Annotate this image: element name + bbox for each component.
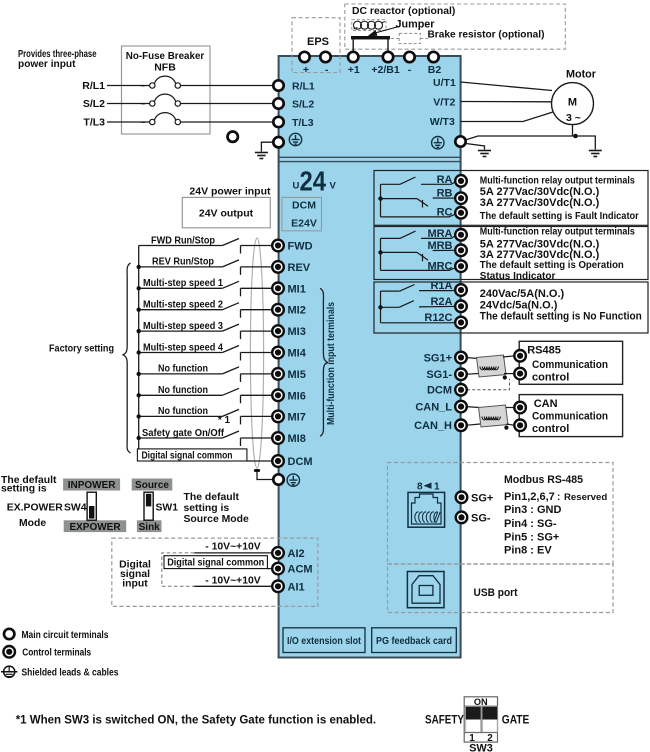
CAN isolation transformer bbox=[479, 405, 509, 427]
svg-text:RS485: RS485 bbox=[527, 345, 561, 357]
svg-text:Source Mode: Source Mode bbox=[184, 514, 249, 525]
DC reactor outer dashed box bbox=[345, 4, 566, 49]
svg-text:AI2: AI2 bbox=[288, 548, 305, 560]
terminal minus2 (top) bbox=[404, 52, 414, 62]
svg-text:CAN: CAN bbox=[534, 398, 558, 410]
CAN box bbox=[519, 395, 622, 437]
switch blade MI5 bbox=[222, 367, 239, 374]
svg-text:T/L3: T/L3 bbox=[292, 117, 314, 129]
digital signal common label box bbox=[137, 449, 247, 461]
svg-text:EX.POWER: EX.POWER bbox=[7, 503, 63, 514]
svg-text:Pin1,2,6,7: Pin1,2,6,7 bbox=[504, 491, 555, 503]
terminal MI3 bbox=[272, 325, 284, 337]
wire U/T1 to motor bbox=[461, 82, 553, 91]
junction dot MI1 bbox=[137, 286, 141, 290]
svg-text:Factory setting: Factory setting bbox=[49, 343, 114, 355]
svg-text:24: 24 bbox=[300, 166, 327, 197]
terminal AI2 bbox=[272, 547, 284, 559]
USB dashed box bbox=[388, 564, 614, 613]
relay output box 2 bbox=[374, 227, 648, 280]
legend main circuit symbol bbox=[4, 629, 14, 639]
svg-text:24Vdc/5a(N.O.): 24Vdc/5a(N.O.) bbox=[480, 299, 558, 311]
svg-text:SW3: SW3 bbox=[469, 743, 493, 752]
svg-text:Multi-function input terminals: Multi-function input terminals bbox=[326, 302, 337, 425]
svg-text:U: U bbox=[293, 181, 300, 192]
brake resistor dashed body bbox=[399, 33, 420, 43]
terminal REV bbox=[272, 261, 284, 273]
switch post MI2 bbox=[240, 310, 242, 318]
terminal T/L3 bbox=[273, 117, 283, 127]
terminal R1A bbox=[455, 284, 467, 296]
svg-text:Multi-step speed 1: Multi-step speed 1 bbox=[143, 277, 223, 289]
svg-text:No-Fuse Breaker: No-Fuse Breaker bbox=[126, 51, 205, 62]
svg-text:S/L2: S/L2 bbox=[83, 98, 105, 110]
terminal MI8 bbox=[272, 432, 284, 444]
terminal SG+ bbox=[456, 492, 468, 504]
switch post MI8 bbox=[240, 438, 242, 446]
wire ground-terminal to earth (input side) bbox=[261, 142, 273, 151]
junction dot MI5 bbox=[137, 372, 141, 376]
modbus dashed box bbox=[388, 463, 614, 565]
motor M circle bbox=[552, 83, 594, 125]
wire DCM common bbox=[247, 460, 273, 462]
wire PE to left ground bbox=[466, 144, 485, 150]
svg-text:Modbus RS-485: Modbus RS-485 bbox=[504, 474, 583, 486]
wire V/T2 to motor bbox=[461, 101, 552, 103]
svg-text:MI4: MI4 bbox=[288, 348, 307, 360]
relay1 dot bbox=[378, 196, 382, 200]
svg-text:RB: RB bbox=[437, 188, 453, 200]
terminal S/L2 bbox=[273, 98, 283, 108]
relay1 RC wire bbox=[381, 213, 458, 217]
RS485 isolation transformer bbox=[477, 355, 507, 377]
svg-text:SG1+: SG1+ bbox=[424, 352, 452, 364]
svg-text:S/L2: S/L2 bbox=[292, 98, 314, 110]
EPS dashed box bbox=[292, 18, 340, 73]
svg-text:Source: Source bbox=[135, 480, 169, 491]
svg-text:The default: The default bbox=[184, 492, 240, 503]
svg-text:*1 When SW3 is switched ON, th: *1 When SW3 is switched ON, the Safety G… bbox=[16, 715, 376, 727]
svg-text:Digital signal common: Digital signal common bbox=[167, 558, 264, 569]
dashed DCM reference bbox=[467, 379, 510, 390]
svg-text:T/L3: T/L3 bbox=[83, 117, 105, 129]
svg-text:MI1: MI1 bbox=[288, 283, 306, 295]
terminal RC bbox=[455, 207, 467, 219]
wire bus to switch MI7 bbox=[139, 415, 223, 417]
svg-text:* 1: * 1 bbox=[218, 415, 231, 426]
svg-text:Safety gate On/Off: Safety gate On/Off bbox=[142, 427, 224, 439]
svg-text:Main circuit terminals: Main circuit terminals bbox=[22, 630, 109, 641]
terminal DCM (input) bbox=[272, 455, 284, 467]
switch post REV bbox=[240, 267, 242, 275]
SW3 dip switch body bbox=[464, 697, 497, 742]
CAN box terminal 1 bbox=[514, 402, 526, 414]
wire PE to grounds bbox=[466, 136, 595, 150]
svg-text:R/L1: R/L1 bbox=[82, 80, 105, 92]
svg-text:The default setting is Fault: The default setting is Fault Indicator bbox=[480, 211, 639, 222]
svg-text:SG-: SG- bbox=[471, 512, 491, 524]
relay2 MRB wire+blade bbox=[381, 250, 462, 261]
svg-text:Multi-function relay output te: Multi-function relay output terminals bbox=[480, 227, 635, 238]
terminal MI2 bbox=[272, 304, 284, 316]
svg-text:Control terminals: Control terminals bbox=[22, 648, 91, 659]
svg-text:Multi-step speed 3: Multi-step speed 3 bbox=[143, 320, 223, 332]
relay2 bus bbox=[380, 238, 382, 270]
svg-text:REV Run/Stop: REV Run/Stop bbox=[152, 256, 214, 268]
wire breaker to terminal T/L3 bbox=[181, 121, 274, 123]
svg-text:+: + bbox=[303, 64, 309, 76]
terminal MI7 bbox=[272, 411, 284, 423]
relay output box 3 bbox=[374, 282, 648, 333]
switch post MI1 bbox=[240, 288, 242, 296]
switch post MI6 bbox=[240, 395, 242, 403]
relay2 dot bbox=[378, 250, 382, 254]
wire breaker to terminal R/L1 bbox=[181, 85, 274, 87]
unattached main terminal marker bbox=[228, 132, 238, 142]
terminal ACM bbox=[272, 563, 284, 575]
svg-text:MI2: MI2 bbox=[288, 305, 306, 317]
svg-text:RA: RA bbox=[437, 174, 453, 186]
junction dot MI7 bbox=[137, 414, 141, 418]
junction dot MI4 bbox=[137, 350, 141, 354]
shield drain wire bbox=[257, 472, 272, 480]
terminal DCM comm bbox=[455, 384, 467, 396]
svg-text:SW1: SW1 bbox=[156, 503, 179, 514]
wire switch to terminal MI5 bbox=[241, 373, 274, 375]
wire SG1- to transformer bbox=[466, 373, 478, 376]
terminal RB bbox=[455, 192, 467, 204]
digital signal common box (analog) bbox=[164, 556, 267, 569]
terminal CAN_H bbox=[455, 420, 467, 432]
switch blade MI2 bbox=[222, 303, 239, 310]
svg-text:MRA: MRA bbox=[427, 228, 452, 240]
junction dot MI8 bbox=[137, 436, 141, 440]
terminal SG- bbox=[456, 512, 468, 524]
svg-text:INPOWER: INPOWER bbox=[68, 480, 117, 491]
svg-text:Brake resistor (optional): Brake resistor (optional) bbox=[428, 30, 545, 41]
ACM wire bbox=[267, 568, 272, 570]
terminal R/L1 bbox=[273, 80, 283, 90]
shielded cable oval bbox=[250, 238, 263, 468]
wire bus to switch MI8 bbox=[139, 437, 223, 439]
terminal PE output bbox=[455, 136, 465, 146]
svg-text:setting is: setting is bbox=[184, 503, 230, 514]
svg-text:SG1-: SG1- bbox=[426, 369, 452, 381]
svg-text:- 10V~+10V: - 10V~+10V bbox=[205, 576, 261, 587]
relay2 MRA wire+blade bbox=[381, 231, 458, 238]
PE symbol (input) bbox=[289, 133, 301, 145]
breaker pole R/L1 bbox=[150, 76, 181, 88]
svg-text:Mode: Mode bbox=[19, 518, 46, 529]
wire bus to switch MI4 bbox=[139, 352, 223, 354]
relay1 RB wire+blade bbox=[381, 198, 462, 208]
svg-text:DCM: DCM bbox=[288, 456, 313, 468]
NFB box bbox=[122, 46, 211, 134]
terminal +2/B1 (top) bbox=[383, 52, 393, 62]
DC reactor coil bbox=[354, 21, 386, 29]
svg-text:control: control bbox=[532, 423, 569, 435]
svg-text:MI5: MI5 bbox=[288, 369, 306, 381]
svg-text:B2: B2 bbox=[428, 64, 442, 76]
terminal MRC bbox=[455, 260, 467, 272]
svg-text:SG+: SG+ bbox=[471, 492, 493, 504]
RS485 box terminal 2 bbox=[514, 368, 526, 380]
svg-text:No function: No function bbox=[158, 384, 208, 396]
CAN box terminal 2 bbox=[514, 420, 526, 432]
svg-text:setting is: setting is bbox=[1, 484, 47, 495]
wire T/L3 to breaker bbox=[107, 121, 150, 123]
RJ45 socket bbox=[408, 492, 445, 527]
logo u24v bbox=[293, 166, 337, 197]
USB connector bbox=[407, 572, 444, 608]
DC reactor coil dashed box bbox=[352, 20, 386, 31]
wire transformer to RS485 box lower bbox=[504, 373, 515, 375]
wire transformer to CAN box upper bbox=[506, 407, 515, 409]
wire S/L2 to breaker bbox=[107, 103, 150, 105]
svg-text:EXPOWER: EXPOWER bbox=[69, 522, 121, 533]
svg-text:Reserved: Reserved bbox=[564, 492, 607, 503]
svg-text:FWD Run/Stop: FWD Run/Stop bbox=[151, 234, 215, 246]
terminal MRA bbox=[455, 229, 467, 241]
svg-text:R2A: R2A bbox=[430, 296, 452, 308]
svg-text:Motor: Motor bbox=[566, 69, 597, 81]
Sink gray label bbox=[137, 520, 162, 532]
PG feedback card box bbox=[372, 628, 457, 653]
DCM/E24V box bbox=[282, 197, 322, 230]
AI2 wire bbox=[194, 552, 272, 554]
wire CAN_L to transformer bbox=[466, 406, 480, 409]
svg-text:-: - bbox=[325, 64, 329, 76]
svg-text:Status Indicator: Status Indicator bbox=[480, 271, 556, 282]
wire W/T3 to motor bbox=[461, 112, 555, 122]
VFD main block (blue body) bbox=[279, 56, 461, 658]
relay3 bus bbox=[380, 291, 382, 323]
Source gray label bbox=[132, 479, 173, 491]
wire switch to terminal MI8 bbox=[241, 437, 274, 439]
terminal AI1 bbox=[272, 581, 284, 593]
divider line lower bbox=[279, 161, 461, 163]
I/O extension slot box bbox=[283, 628, 365, 653]
switch blade MI8 bbox=[222, 431, 239, 438]
svg-text:control: control bbox=[532, 372, 569, 384]
svg-text:R/L1: R/L1 bbox=[292, 80, 315, 92]
svg-text:power input: power input bbox=[18, 59, 76, 70]
switch blade REV bbox=[222, 260, 239, 267]
switch post FWD bbox=[240, 246, 242, 254]
svg-text:MRC: MRC bbox=[427, 261, 452, 273]
terminal SG1+ bbox=[455, 352, 467, 364]
relay output box 1 bbox=[374, 171, 648, 226]
junction dot REV bbox=[137, 265, 141, 269]
svg-text:No function: No function bbox=[158, 363, 208, 375]
terminal +1 (top) bbox=[348, 52, 358, 62]
terminal B2 (top) bbox=[428, 52, 438, 62]
junction dot motor ground bbox=[573, 134, 578, 139]
analog dashed link bbox=[162, 553, 194, 586]
terminal + (top) bbox=[299, 52, 309, 62]
terminal R12C bbox=[455, 317, 467, 329]
RJ45 spring contacts bbox=[415, 512, 440, 523]
svg-text:The default setting is Operati: The default setting is Operation bbox=[480, 260, 624, 271]
svg-text:DCM: DCM bbox=[427, 385, 452, 397]
svg-text:Pin3 : GND: Pin3 : GND bbox=[504, 504, 562, 516]
svg-text:Pin4 : SG-: Pin4 : SG- bbox=[504, 518, 557, 530]
shield clamp bbox=[254, 469, 260, 472]
svg-text:input: input bbox=[122, 579, 148, 590]
svg-text:Communication: Communication bbox=[532, 411, 608, 423]
svg-text:PG feedback card: PG feedback card bbox=[376, 636, 452, 647]
terminal MI4 bbox=[272, 347, 284, 359]
svg-text:-: - bbox=[408, 64, 412, 76]
svg-text:SW4: SW4 bbox=[64, 503, 87, 514]
svg-text:8: 8 bbox=[417, 482, 423, 493]
svg-text:V/T2: V/T2 bbox=[433, 96, 455, 108]
ground (motor) bbox=[589, 151, 602, 157]
wire bus to switch MI3 bbox=[139, 330, 223, 332]
svg-text:DC reactor (optional): DC reactor (optional) bbox=[352, 6, 455, 17]
switch post MI7 bbox=[240, 416, 242, 424]
terminal FWD bbox=[272, 240, 284, 252]
breaker pole S/L2 bbox=[150, 94, 181, 106]
relay1 bus bbox=[380, 184, 382, 217]
MI brace bbox=[320, 288, 328, 436]
svg-text:DCM: DCM bbox=[292, 200, 316, 212]
switch blade MI6 bbox=[222, 388, 239, 395]
wire switch to terminal MI3 bbox=[241, 330, 274, 332]
INPOWER gray label bbox=[63, 479, 120, 491]
relay2 MRC wire bbox=[381, 267, 458, 270]
svg-text:REV: REV bbox=[288, 262, 311, 274]
svg-text:R12C: R12C bbox=[424, 312, 452, 324]
svg-text:I/O extension slot: I/O extension slot bbox=[287, 636, 362, 647]
24V output box bbox=[182, 197, 270, 227]
CAN transformer dot bbox=[504, 426, 508, 430]
wire CAN_H to transformer bbox=[466, 424, 480, 425]
switch blade MI1 bbox=[222, 281, 239, 288]
SW1 slide switch bbox=[144, 492, 153, 520]
switch post MI4 bbox=[240, 353, 242, 361]
motor earth lead bbox=[572, 125, 574, 136]
wire transformer to CAN box lower bbox=[507, 424, 515, 425]
svg-text:AI1: AI1 bbox=[288, 581, 305, 593]
input common bus wire bbox=[138, 246, 140, 462]
svg-text:3A 277Vac/30Vdc(N.O.): 3A 277Vac/30Vdc(N.O.) bbox=[480, 197, 600, 209]
svg-text:240Vac/5A(N.O.): 240Vac/5A(N.O.) bbox=[480, 288, 565, 300]
svg-text:CAN_H: CAN_H bbox=[414, 420, 452, 432]
svg-text:Shielded leads & cables: Shielded leads & cables bbox=[22, 667, 119, 678]
legend control symbol bbox=[3, 646, 15, 658]
EXPOWER gray label bbox=[64, 520, 126, 532]
terminal MI1 bbox=[272, 283, 284, 295]
svg-text:MI8: MI8 bbox=[288, 433, 306, 445]
RS485 box terminal 1 bbox=[514, 350, 526, 362]
wire bus to switch MI1 bbox=[139, 287, 223, 289]
wire SG1+ to transformer bbox=[466, 358, 478, 359]
wire switch to terminal MI6 bbox=[241, 394, 274, 396]
PE symbol (output) bbox=[432, 137, 444, 149]
switch post MI5 bbox=[240, 374, 242, 382]
svg-text:Pin8 : EV: Pin8 : EV bbox=[504, 545, 552, 557]
wire transformer to RS485 box upper bbox=[503, 356, 515, 357]
svg-text:24V output: 24V output bbox=[199, 208, 254, 220]
wire breaker to terminal S/L2 bbox=[181, 103, 274, 105]
terminal PE input bbox=[273, 137, 283, 147]
breaker pole T/L3 bbox=[150, 113, 181, 125]
svg-text:Pin5 : SG+: Pin5 : SG+ bbox=[504, 531, 559, 543]
svg-text:CAN_L: CAN_L bbox=[415, 401, 452, 413]
relay3 R1A wire+blade bbox=[381, 285, 458, 292]
wire bus to switch REV bbox=[139, 266, 223, 268]
terminal MI5 bbox=[272, 368, 284, 380]
legend shielded symbol bbox=[1, 666, 17, 677]
terminal RA bbox=[455, 175, 467, 187]
relay3 R12C wire bbox=[381, 322, 458, 324]
svg-text:RC: RC bbox=[437, 207, 453, 219]
svg-text:V: V bbox=[330, 181, 337, 192]
svg-text:MI7: MI7 bbox=[288, 411, 306, 423]
divider line upper bbox=[279, 156, 461, 158]
factory setting brace bbox=[123, 263, 131, 453]
svg-text:1: 1 bbox=[434, 482, 440, 493]
terminal minus (top) bbox=[320, 52, 330, 62]
svg-text:Sink: Sink bbox=[139, 522, 161, 533]
wire bus to switch MI5 bbox=[139, 373, 223, 375]
switch blade MI7 bbox=[222, 409, 239, 416]
terminal R2A bbox=[455, 301, 467, 313]
svg-text:~: ~ bbox=[140, 99, 146, 110]
svg-text:+1: +1 bbox=[348, 64, 360, 76]
jumper bar bbox=[353, 39, 388, 56]
svg-text:Multi-step speed 4: Multi-step speed 4 bbox=[143, 341, 223, 353]
relay3 R2A wire+blade bbox=[381, 301, 462, 308]
svg-text:MI3: MI3 bbox=[288, 326, 306, 338]
AI1 wire bbox=[194, 585, 272, 587]
relay3 dot bbox=[378, 305, 382, 309]
wire bus to switch MI6 bbox=[139, 394, 223, 396]
svg-text:Digital signal common: Digital signal common bbox=[142, 450, 233, 461]
svg-text:FWD: FWD bbox=[288, 241, 313, 253]
svg-text::: : bbox=[557, 492, 560, 503]
wire switch to terminal REV bbox=[241, 266, 274, 268]
svg-text:+2/B1: +2/B1 bbox=[371, 64, 399, 76]
wire bus to switch MI2 bbox=[139, 309, 223, 311]
svg-text:- 10V~+10V: - 10V~+10V bbox=[205, 542, 261, 553]
svg-text:~: ~ bbox=[140, 81, 146, 92]
svg-text:No function: No function bbox=[158, 405, 208, 417]
svg-text:~: ~ bbox=[140, 118, 146, 129]
terminal MRB bbox=[455, 245, 467, 257]
wire switch to terminal MI2 bbox=[241, 309, 274, 311]
svg-text:R1A: R1A bbox=[430, 280, 452, 292]
svg-text:MI6: MI6 bbox=[288, 390, 306, 402]
svg-text:MRB: MRB bbox=[427, 240, 452, 252]
svg-text:USB port: USB port bbox=[474, 587, 518, 599]
svg-text:Communication: Communication bbox=[532, 359, 608, 371]
svg-text:24V power input: 24V power input bbox=[189, 186, 271, 198]
terminal MI6 bbox=[272, 390, 284, 402]
RS485 box bbox=[519, 341, 622, 384]
transformer ground dot bbox=[503, 375, 507, 379]
svg-text:GATE: GATE bbox=[502, 715, 530, 727]
ground (input side) bbox=[255, 153, 268, 159]
switch blade MI4 bbox=[222, 346, 239, 353]
svg-text:ON: ON bbox=[474, 697, 488, 707]
wire switch to terminal MI7 bbox=[241, 415, 274, 417]
wire bus to switch FWD bbox=[139, 245, 223, 247]
wire switch to terminal MI1 bbox=[241, 287, 274, 289]
wire switch to terminal MI4 bbox=[241, 352, 274, 354]
terminal CAN_L bbox=[455, 401, 467, 413]
